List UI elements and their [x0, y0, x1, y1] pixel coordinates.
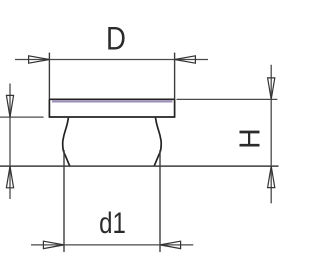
svg-text:D: D	[106, 21, 126, 57]
barrel right side	[154, 118, 161, 166]
svg-text:H: H	[235, 128, 267, 149]
d1 arrow left	[43, 241, 64, 248]
left arrow up	[6, 166, 13, 188]
D extension line right	[174, 53, 176, 100]
purple gasket line	[52, 100, 173, 102]
D extension line left	[48, 53, 50, 100]
left dimension line	[9, 84, 11, 200]
flange bottom line	[49, 116, 176, 118]
svg-text:d1: d1	[99, 207, 126, 240]
H dimension line	[270, 65, 272, 204]
D arrow left	[29, 56, 50, 63]
left dimension extension line	[0, 116, 44, 118]
d1 arrow right	[160, 241, 181, 248]
H arrow down	[268, 78, 275, 100]
H arrow up	[268, 166, 275, 188]
left arrow down	[6, 95, 13, 117]
barrel left side	[63, 118, 70, 166]
d1 dimension line	[31, 244, 193, 246]
D dimension line	[15, 59, 208, 61]
H extension line top	[177, 98, 278, 100]
d1 extension line right	[159, 150, 161, 252]
d1 extension line left	[63, 150, 65, 252]
D arrow right	[175, 56, 196, 63]
baseline / bottom extension line full width	[0, 165, 279, 167]
flange outline	[49, 99, 174, 117]
